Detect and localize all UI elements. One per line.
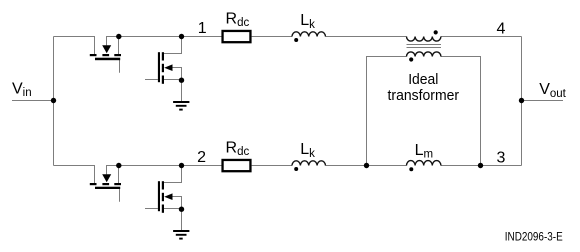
svg-text:1: 1	[198, 20, 207, 37]
svg-text:transformer: transformer	[388, 87, 460, 104]
svg-text:2: 2	[197, 149, 206, 166]
svg-text:3: 3	[496, 149, 505, 166]
svg-text:4: 4	[496, 20, 505, 37]
svg-text:Ideal: Ideal	[408, 71, 438, 88]
svg-text:IND2096-3-E: IND2096-3-E	[505, 229, 563, 243]
